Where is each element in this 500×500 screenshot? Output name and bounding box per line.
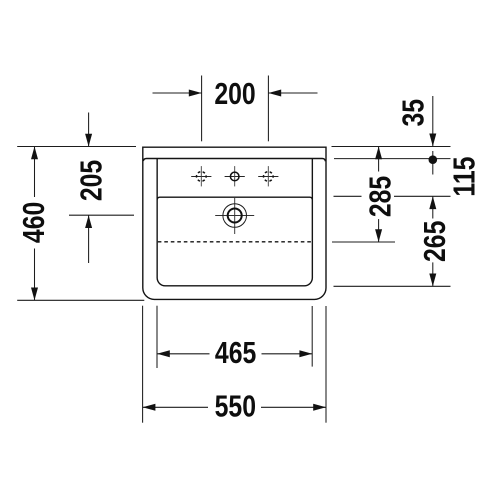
dim 205 arrowhead up xyxy=(85,215,92,228)
faucet hole left: dashed circle xyxy=(197,172,207,182)
dim 200 arrowhead right-pointing xyxy=(189,90,202,97)
right extension line bowl bottom xyxy=(334,285,451,287)
bottom extension line outer right xyxy=(325,306,327,423)
svg-text:205: 205 xyxy=(74,160,108,201)
overflow dashed line xyxy=(158,241,312,243)
dim 205 extension line xyxy=(69,214,134,216)
dim 205 lower arrow tail xyxy=(88,215,90,263)
faucet hole middle: crosshair xyxy=(225,166,245,186)
dim 200 extension line right xyxy=(267,76,269,142)
bottom extension line inner right xyxy=(311,306,313,367)
svg-text:460: 460 xyxy=(16,202,50,243)
drain outer circle xyxy=(223,204,247,228)
right extension line bowl top right part xyxy=(394,195,451,197)
dim 460 extension line bottom xyxy=(17,299,144,301)
svg-text:465: 465 xyxy=(215,336,256,370)
dim 265 arrowhead down xyxy=(429,274,436,287)
dim 465 arrowhead right xyxy=(299,350,312,357)
dim 285 line upper segment xyxy=(378,147,380,172)
dim 205 upper arrow tail xyxy=(88,113,90,147)
svg-text:285: 285 xyxy=(363,176,397,217)
right extension line overflow level xyxy=(332,241,395,243)
dim 35 arrowhead down xyxy=(429,134,436,147)
svg-text:115: 115 xyxy=(447,157,481,197)
dim 550 arrowhead left xyxy=(143,404,156,411)
dim 115 reference line through dot xyxy=(432,151,434,175)
dim 200 arrow tail right xyxy=(268,92,317,94)
faucet hole right: dashed circle xyxy=(264,172,274,182)
right extension line rim top xyxy=(332,146,451,148)
dim 460 arrowhead down xyxy=(31,288,38,301)
dim 205 arrowhead down xyxy=(85,134,92,147)
svg-text:200: 200 xyxy=(214,76,255,110)
dim 200 extension line left xyxy=(201,76,203,142)
right extension line bowl top left part xyxy=(334,195,362,197)
bottom extension line inner left xyxy=(156,306,158,368)
dim 465 line right segment xyxy=(262,353,313,355)
dim 265 line upper segment xyxy=(432,196,434,218)
dim 460 line upper segment xyxy=(34,147,36,198)
reference dot xyxy=(429,155,438,164)
dim 465 arrowhead left xyxy=(157,350,170,357)
faucet hole right: crosshair xyxy=(258,166,278,186)
drain crosshair xyxy=(215,198,254,234)
dim 285 arrowhead down xyxy=(375,229,382,242)
basin outer outline xyxy=(143,147,326,299)
basin inner bowl walls and bottom xyxy=(157,159,312,286)
dim 460 line lower segment xyxy=(34,249,36,301)
dim 285 arrowhead up xyxy=(375,147,382,160)
dim 200 arrowhead left-pointing xyxy=(268,90,281,97)
dim 265 line lower segment xyxy=(432,262,434,286)
dim 285 line lower segment xyxy=(378,219,380,242)
svg-text:35: 35 xyxy=(396,99,430,127)
drain inner circle xyxy=(228,209,242,223)
dim 550 arrowhead right xyxy=(313,404,326,411)
dim 550 line left segment xyxy=(143,406,208,408)
dim 465 line left segment xyxy=(157,353,210,355)
dim 200 arrow tail left xyxy=(153,92,202,94)
right extension line dot level xyxy=(334,158,451,160)
faucet hole middle: circle xyxy=(230,172,239,181)
dim 265 arrowhead up xyxy=(429,196,436,209)
dim 460 extension line top xyxy=(17,146,136,148)
basin bowl top edge line xyxy=(157,197,312,199)
svg-text:265: 265 xyxy=(417,221,451,262)
bottom extension line outer left xyxy=(142,306,144,423)
faucet hole left: crosshair xyxy=(191,166,211,186)
basin rim bottom edge line xyxy=(143,159,325,162)
dim 35 arrow tail xyxy=(432,96,434,146)
dim 550 line right segment xyxy=(261,406,326,408)
dim 460 arrowhead up xyxy=(31,147,38,160)
svg-text:550: 550 xyxy=(215,389,256,423)
